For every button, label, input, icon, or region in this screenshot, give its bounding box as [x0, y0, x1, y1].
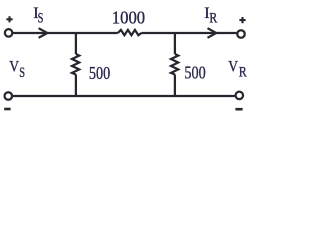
arrow I_S: [39, 28, 48, 38]
resistor 500 left zigzag: [72, 54, 79, 75]
wire stub left shunt top: [75, 32, 77, 54]
terminal circle TL: [5, 29, 13, 37]
wire stub left shunt bottom: [75, 75, 77, 98]
wire bottom: [12, 95, 235, 97]
svg-text:S: S: [38, 11, 44, 27]
arrow I_R: [208, 28, 217, 38]
terminal circle BL: [5, 92, 13, 100]
wire top left segment: [13, 32, 118, 34]
svg-text:S: S: [19, 65, 25, 81]
terminal plus TL: [6, 16, 12, 22]
wire stub right shunt top: [174, 32, 176, 54]
resistor 500 right zigzag: [171, 54, 178, 75]
terminal minus BL: [4, 108, 10, 111]
wire top right segment: [141, 32, 236, 34]
resistor R series 1000: [118, 30, 142, 35]
terminal circle BR: [236, 92, 244, 100]
svg-text:1000: 1000: [112, 8, 145, 28]
svg-text:V: V: [228, 59, 238, 76]
svg-text:500: 500: [89, 63, 110, 83]
svg-text:500: 500: [184, 63, 205, 83]
svg-text:V: V: [9, 59, 19, 76]
terminal minus BR: [235, 108, 242, 111]
terminal plus TR: [239, 17, 245, 23]
wire stub right shunt bottom: [174, 75, 176, 98]
svg-text:R: R: [209, 10, 217, 26]
terminal circle TR: [237, 30, 245, 38]
svg-text:R: R: [239, 65, 247, 81]
